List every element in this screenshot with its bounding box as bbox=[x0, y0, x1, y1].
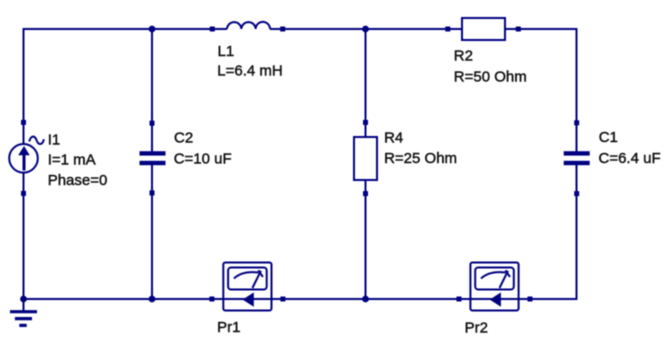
svg-text:C=10 uF: C=10 uF bbox=[174, 151, 232, 168]
svg-text:R=50 Ohm: R=50 Ohm bbox=[454, 69, 527, 86]
svg-text:Pr2: Pr2 bbox=[465, 319, 488, 336]
svg-text:R2: R2 bbox=[454, 48, 473, 65]
svg-text:C1: C1 bbox=[599, 129, 618, 146]
svg-text:R4: R4 bbox=[384, 129, 403, 146]
svg-text:L=6.4 mH: L=6.4 mH bbox=[217, 63, 282, 80]
svg-text:L1: L1 bbox=[218, 43, 235, 60]
svg-text:Phase=0: Phase=0 bbox=[48, 172, 108, 189]
svg-text:Pr1: Pr1 bbox=[217, 319, 240, 336]
svg-text:C2: C2 bbox=[174, 129, 193, 146]
svg-text:C=6.4 uF: C=6.4 uF bbox=[599, 150, 661, 167]
svg-text:I=1 mA: I=1 mA bbox=[48, 151, 96, 168]
svg-text:R=25 Ohm: R=25 Ohm bbox=[384, 150, 457, 167]
svg-text:I1: I1 bbox=[48, 131, 61, 148]
